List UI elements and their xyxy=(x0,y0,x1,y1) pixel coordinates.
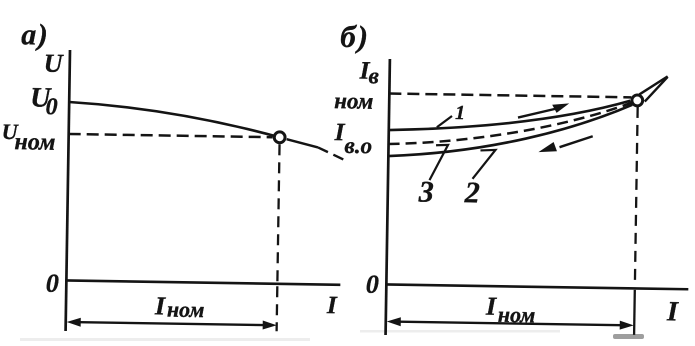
svg-text:I: I xyxy=(666,296,679,327)
svg-text:а): а) xyxy=(21,18,50,51)
svg-text:ном: ном xyxy=(167,297,205,323)
svg-text:I: I xyxy=(154,291,166,320)
svg-text:1: 1 xyxy=(455,102,465,124)
svg-text:I: I xyxy=(485,292,497,321)
svg-text:2: 2 xyxy=(464,176,481,209)
svg-text:ном: ном xyxy=(498,302,536,328)
svg-text:I: I xyxy=(326,292,338,319)
svg-text:0: 0 xyxy=(45,94,57,120)
svg-text:б): б) xyxy=(340,19,370,54)
svg-text:в.о: в.о xyxy=(344,133,372,158)
svg-text:ном: ном xyxy=(14,129,55,156)
svg-text:U: U xyxy=(44,49,64,78)
svg-text:3: 3 xyxy=(418,175,435,208)
svg-text:0: 0 xyxy=(46,269,59,298)
svg-text:ном: ном xyxy=(334,88,374,114)
svg-text:в: в xyxy=(368,63,379,88)
svg-text:0: 0 xyxy=(366,270,379,299)
